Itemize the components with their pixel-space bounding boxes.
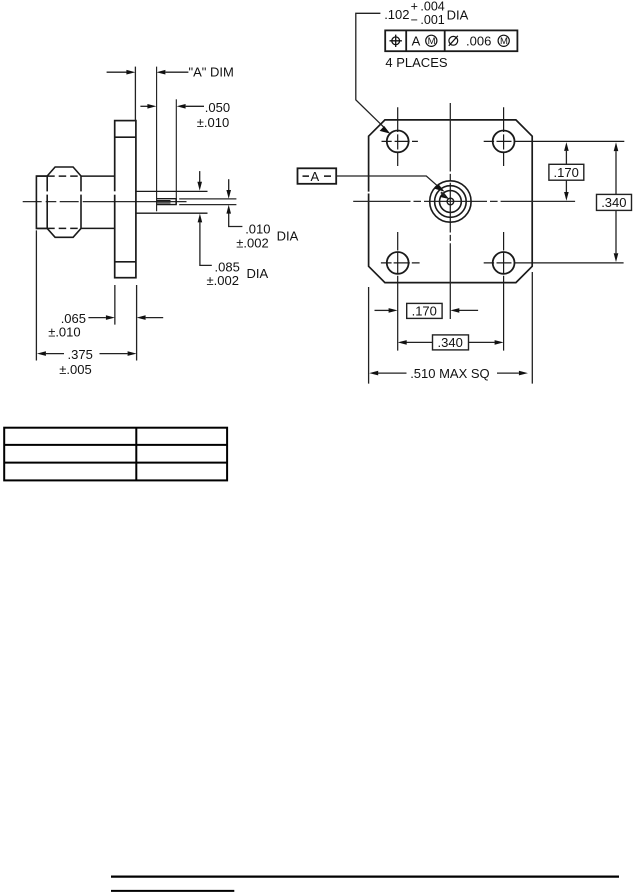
- svg-text:±.010: ±.010: [48, 325, 80, 340]
- svg-text:M: M: [500, 36, 508, 47]
- svg-text:.375: .375: [68, 347, 93, 362]
- white gap on left edge: [368, 192, 370, 194]
- svg-text:.340: .340: [601, 195, 626, 210]
- center connector circles: [430, 181, 471, 222]
- .102 +.004 -.001 DIA text: [384, 7, 468, 23]
- FCF cell dia .006 (M): [449, 36, 458, 46]
- dim .340 right side: [597, 142, 632, 262]
- dielectric bushing side view: [136, 67, 208, 214]
- footer rule short: [111, 890, 234, 892]
- white hidden-line gaps: [46, 191, 116, 194]
- .102 leader: [356, 13, 390, 133]
- svg-text:DIA: DIA: [447, 8, 469, 23]
- svg-text:.170: .170: [412, 303, 437, 318]
- position symbol: [390, 35, 402, 47]
- vertical centerline front view: [449, 103, 451, 319]
- dim .065: [88, 285, 163, 361]
- svg-text:.510 MAX SQ: .510 MAX SQ: [410, 366, 489, 381]
- svg-text:.102: .102: [384, 7, 409, 22]
- svg-text:− .001: − .001: [411, 13, 445, 27]
- svg-text:M: M: [428, 36, 436, 47]
- svg-text:+ .004: + .004: [411, 0, 445, 14]
- svg-text:4 PLACES: 4 PLACES: [385, 55, 447, 70]
- mounting hole top-right: [484, 107, 625, 166]
- hidden thread line top (dashed across hex): [36, 175, 114, 177]
- datum A box: [298, 168, 337, 184]
- connector back end rectangle: [36, 176, 47, 228]
- hex nut body: [47, 167, 81, 237]
- dim .170 bottom: [375, 303, 479, 318]
- footer rule long: [111, 875, 619, 877]
- svg-text:±.002: ±.002: [207, 273, 239, 288]
- svg-text:DIA: DIA: [277, 228, 299, 243]
- svg-text:±.005: ±.005: [59, 362, 91, 377]
- svg-text:±.010: ±.010: [197, 115, 229, 130]
- dim .050: [140, 104, 204, 109]
- center pin side view: [157, 99, 177, 204]
- mounting hole bottom-left: [381, 232, 420, 351]
- svg-text:"A" DIM: "A" DIM: [189, 65, 234, 80]
- revision table: [4, 428, 227, 481]
- svg-text:.010: .010: [245, 222, 270, 237]
- FCF cell A(M): [412, 34, 421, 49]
- dim .085 DIA: [197, 171, 211, 265]
- dim .170 right side: [549, 142, 584, 201]
- svg-text:A: A: [311, 169, 320, 184]
- svg-text:.340: .340: [438, 335, 463, 350]
- svg-text:A: A: [412, 34, 421, 49]
- mounting hole bottom-right: [484, 232, 624, 351]
- feature control frame: [385, 30, 517, 51]
- flange side view: [115, 121, 136, 278]
- dim .510 MAX SQ: [369, 272, 533, 384]
- mounting hole top-left: [382, 107, 418, 166]
- svg-text:.050: .050: [205, 100, 230, 115]
- hidden thread line bottom (dashed across hex): [36, 227, 114, 229]
- dim .340 bottom: [398, 335, 504, 350]
- dim .375: [36, 230, 136, 360]
- 4 PLACES text: [385, 55, 447, 70]
- flange outline front view: [369, 120, 533, 283]
- svg-text:.170: .170: [554, 165, 579, 180]
- pin diameter extension lines: [179, 199, 236, 205]
- horizontal centerline front view: [353, 200, 575, 202]
- datum A leader: [336, 176, 449, 199]
- svg-text:DIA: DIA: [247, 266, 269, 281]
- axis centerline left view: [23, 201, 187, 203]
- dim "A" DIM: [107, 67, 189, 121]
- svg-text:±.002: ±.002: [236, 235, 268, 250]
- svg-text:.006: .006: [466, 34, 491, 49]
- dim .010 DIA: [226, 179, 242, 226]
